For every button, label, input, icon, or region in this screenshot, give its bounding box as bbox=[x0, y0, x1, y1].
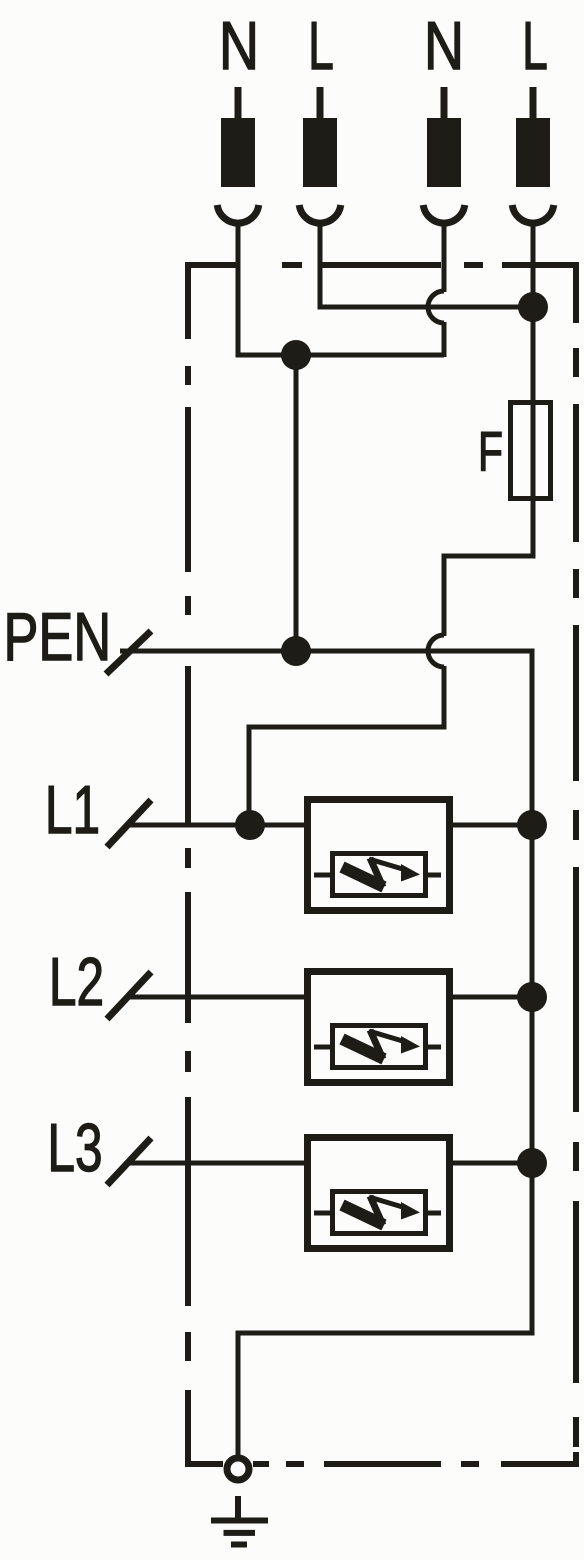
crossover hop (fuse wire over PEN line) bbox=[428, 635, 444, 667]
fuse F through-wire, down, left and to crossover at PEN bbox=[444, 400, 533, 636]
label L (terminal 4) bbox=[522, 8, 548, 84]
wire terminal1 down and N-link to terminal3 column bbox=[238, 223, 444, 355]
arrester F1 flash-arrow wedge bbox=[342, 867, 384, 887]
svg-text:N: N bbox=[219, 9, 259, 84]
label L (terminal 2) bbox=[308, 8, 334, 84]
wire riser between N-link junction and PEN junction bbox=[294, 355, 299, 651]
arrester F3 flash-arrow shaft bbox=[369, 1197, 406, 1208]
svg-text:L1: L1 bbox=[45, 771, 100, 848]
arrester F3 flash-arrow wedge bbox=[342, 1205, 384, 1225]
L2 isolating-point slash bbox=[107, 972, 151, 1019]
crossover hop (terminal3 wire over L-link) bbox=[428, 291, 444, 323]
enclosure border: bottom stub at earth circle bbox=[253, 1461, 269, 1467]
enclosure border: right dot 3 bbox=[573, 810, 579, 840]
enclosure border: left dot 2 bbox=[185, 596, 191, 615]
enclosure border: left dot 4 bbox=[185, 1051, 191, 1072]
arrester F1 left lead stub bbox=[314, 873, 332, 878]
enclosure border: right dot 4 bbox=[573, 1142, 579, 1171]
enclosure border: bottom dot 1 bbox=[286, 1461, 304, 1467]
arrester F2 flash-arrow wedge bbox=[342, 1039, 384, 1059]
label N (terminal 1) bbox=[219, 9, 259, 84]
junction dot (N-link riser top) bbox=[281, 340, 311, 370]
enclosure border: left dash 5 bbox=[185, 1097, 191, 1306]
enclosure border: top dot 1 bbox=[282, 262, 302, 268]
spark-gap arrester F1 outer box bbox=[308, 800, 450, 911]
arrester F1 flash-arrow shaft bbox=[369, 859, 406, 870]
arrester F3 inner cartridge bbox=[333, 1192, 426, 1234]
enclosure border: left dash 4 bbox=[185, 892, 191, 1023]
arrester F1 right lead stub bbox=[426, 873, 441, 878]
terminal X2 (L, clamp arc) bbox=[299, 205, 341, 223]
junction dot (L-link / terminal4) bbox=[518, 292, 548, 322]
earth terminal circle bbox=[227, 1458, 249, 1480]
terminal X2 (L, pin stub) bbox=[317, 87, 324, 120]
arrester F3 left lead stub bbox=[314, 1211, 332, 1216]
spark-gap arrester F3 outer box bbox=[308, 1138, 450, 1249]
terminal X4 (L, pin stub) bbox=[530, 87, 537, 120]
label PEN bbox=[3, 598, 111, 674]
terminal X1 (N, clamp arc) bbox=[217, 205, 259, 223]
enclosure border: right dash 5 bbox=[573, 1201, 579, 1383]
svg-text:F: F bbox=[478, 421, 503, 483]
enclosure border: left dash 3 bbox=[185, 666, 191, 825]
wire terminal4 down to fuse bbox=[531, 223, 536, 402]
arrester F1 flash-arrow head bbox=[401, 864, 420, 882]
label F (fuse) bbox=[478, 421, 503, 483]
terminal X3 (N, clamp arc) bbox=[423, 205, 465, 223]
terminal X3 (N, pin stub) bbox=[441, 87, 448, 120]
arrester F2 inner cartridge bbox=[333, 1026, 426, 1068]
enclosure border: left dot 3 bbox=[185, 848, 191, 868]
svg-text:N: N bbox=[424, 9, 464, 84]
wire terminal3 down (above crossover) bbox=[442, 223, 447, 292]
junction dot (L1 / fuse branch) bbox=[235, 810, 265, 840]
enclosure border: bottom dash 2 bbox=[324, 1461, 441, 1467]
L2 line into arrester F2 bbox=[128, 995, 306, 1000]
junction dot (L2 / right bus) bbox=[517, 982, 547, 1012]
enclosure border: bottom dot 2 bbox=[461, 1461, 479, 1467]
enclosure border: top dash 2 bbox=[322, 262, 441, 268]
L1 line from arrester F1 to right bus bbox=[450, 823, 532, 828]
enclosure border: left dash 2 bbox=[185, 407, 191, 572]
enclosure border: right dot 5 bbox=[573, 1417, 579, 1447]
L1 line into arrester F1 bbox=[128, 823, 306, 828]
enclosure border: bottom-right corner dash bbox=[501, 1452, 576, 1464]
L2 line from arrester F2 to right bus bbox=[450, 995, 532, 1000]
enclosure border: top-right corner dash bbox=[502, 265, 576, 323]
arrester F3 flash-arrow middle stroke bbox=[370, 1196, 383, 1225]
terminal X4 (L, body) bbox=[516, 118, 550, 187]
terminal X2 (L, body) bbox=[303, 118, 337, 187]
ground bar 3 bbox=[231, 1542, 247, 1548]
svg-text:L2: L2 bbox=[49, 943, 104, 1020]
terminal X1 (N, body) bbox=[221, 118, 255, 187]
enclosure border: top-left corner dash bbox=[188, 265, 240, 339]
ground stem bbox=[235, 1496, 241, 1521]
ground bar 2 bbox=[224, 1530, 256, 1536]
wire from crossover down and left to L1 column bbox=[249, 666, 444, 828]
PEN isolating-point slash bbox=[106, 631, 151, 674]
L3 line from arrester F3 to right bus bbox=[450, 1161, 532, 1166]
arrester F2 right lead stub bbox=[426, 1045, 441, 1050]
enclosure border: left dot 5 bbox=[185, 1332, 191, 1361]
svg-text:L: L bbox=[308, 8, 334, 84]
L1 isolating-point slash bbox=[107, 800, 151, 847]
arrester F2 flash-arrow middle stroke bbox=[370, 1030, 383, 1059]
spark-gap arrester F2 outer box bbox=[308, 972, 450, 1083]
label L1 bbox=[45, 771, 100, 848]
arrester F3 right lead stub bbox=[426, 1211, 441, 1216]
enclosure border: right dash 3 bbox=[573, 625, 579, 781]
arrester F1 flash-arrow middle stroke bbox=[370, 858, 383, 887]
arrester F2 flash-arrow shaft bbox=[369, 1031, 406, 1042]
label N (terminal 3) bbox=[424, 9, 464, 84]
wire terminal3 down (below crossover) bbox=[442, 322, 447, 357]
PEN line, right bus down, bottom run to earth column bbox=[120, 651, 532, 1456]
L3 isolating-point slash bbox=[107, 1138, 151, 1185]
terminal X3 (N, body) bbox=[427, 118, 461, 187]
svg-text:PEN: PEN bbox=[3, 598, 111, 674]
enclosure border: right dash 2 bbox=[573, 404, 579, 542]
arrester F2 flash-arrow head bbox=[401, 1036, 420, 1054]
ground bar 1 bbox=[211, 1518, 268, 1524]
enclosure border: right dot 2 bbox=[573, 569, 579, 598]
wire terminal2 down and L-link to node at terminal4 column bbox=[320, 223, 533, 307]
junction dot (PEN / N-link riser) bbox=[281, 636, 311, 666]
enclosure border: left dot 1 bbox=[185, 366, 191, 385]
enclosure border: right dash 4 bbox=[573, 867, 579, 1112]
svg-text:L3: L3 bbox=[47, 1109, 102, 1186]
terminal X4 (L, clamp arc) bbox=[512, 205, 554, 223]
enclosure border: top dot 2 bbox=[464, 262, 483, 268]
junction dot (L3 / right bus) bbox=[517, 1148, 547, 1178]
arrester F2 left lead stub bbox=[314, 1045, 332, 1050]
enclosure border: bottom-left corner dash bbox=[188, 1390, 223, 1464]
enclosure border: right dot 1 bbox=[573, 348, 579, 377]
label L3 bbox=[47, 1109, 102, 1186]
arrester F3 flash-arrow head bbox=[401, 1202, 420, 1220]
svg-text:L: L bbox=[522, 8, 548, 84]
fuse F body bbox=[511, 403, 551, 499]
L3 line into arrester F3 bbox=[128, 1161, 306, 1166]
junction dot (L1 / right bus) bbox=[517, 810, 547, 840]
arrester F1 inner cartridge bbox=[333, 854, 426, 896]
label L2 bbox=[49, 943, 104, 1020]
terminal X1 (N, pin stub) bbox=[235, 87, 242, 120]
